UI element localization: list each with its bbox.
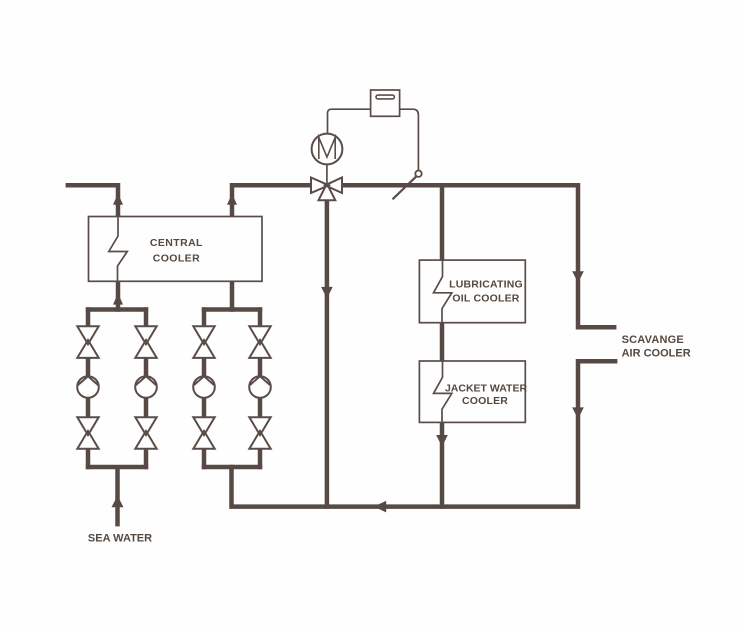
arrow down on bypass — [321, 287, 333, 299]
wire: group2 branch A valve-pump — [202, 358, 207, 377]
wire: group1 branch B upper — [144, 307, 149, 326]
temperature controller box — [371, 90, 400, 116]
wire: group2 branch A upper — [202, 307, 207, 326]
valve actuator stem — [326, 164, 328, 185]
svg-text:AIR COOLER: AIR COOLER — [622, 348, 691, 360]
wire: central cooler right pipe lower — [230, 281, 235, 311]
arrow left on bottom return line — [374, 501, 386, 513]
wire: top main fresh-water line left segment with corner down to cooler — [232, 185, 311, 216]
signal wire: controller to sensor — [400, 109, 419, 170]
arrow down on right riser — [572, 271, 584, 283]
arrow up on cooler right pipe — [227, 193, 237, 204]
wire: pump group 2 bottom header bar — [202, 465, 262, 470]
controller display bar — [376, 95, 394, 99]
svg-text:SEA WATER: SEA WATER — [88, 533, 152, 545]
wire: group2 branch B lower — [258, 449, 263, 469]
wire: group2 branch A pump-valve — [202, 398, 207, 418]
valve V2 (group1 B upper) — [135, 326, 156, 358]
svg-text:OIL COOLER: OIL COOLER — [452, 293, 519, 305]
valve V3 (group2 A upper) — [193, 326, 214, 358]
central cooler heat-exchange zigzag — [109, 217, 128, 282]
svg-text:LUBRICATING: LUBRICATING — [449, 278, 523, 290]
three-way valve body — [311, 178, 342, 201]
wire: group1 branch B valve-pump — [144, 358, 149, 377]
wire: group1 branch A lower — [86, 449, 91, 469]
valve V6 (group1 B lower) — [135, 417, 156, 449]
wire: group1 branch B lower — [144, 449, 149, 469]
central cooler box — [89, 217, 263, 282]
wire: pump group 1 top header bar — [86, 307, 148, 312]
arrow up on overboard pipe — [113, 193, 123, 204]
wire: group2 branch B valve-pump — [258, 358, 263, 377]
motor actuator M circle — [312, 134, 343, 165]
wire: group2 branch B upper — [258, 307, 263, 326]
signal wire: controller to motor — [328, 109, 371, 133]
wire: pump group 2 top header bar — [202, 307, 262, 312]
wire: group2 branch A lower — [202, 449, 207, 469]
lubricating oil cooler box — [419, 260, 525, 323]
letter M — [319, 138, 335, 160]
wire: three-way valve bypass line down to return — [325, 200, 330, 509]
svg-text:JACKET WATER: JACKET WATER — [445, 383, 527, 395]
valve V8 (group2 B lower) — [249, 417, 270, 449]
wire: group1 branch A upper — [86, 307, 91, 326]
jacket water cooler zigzag — [434, 361, 452, 422]
wire: group2 branch B pump-valve — [258, 398, 263, 418]
svg-text:CENTRAL: CENTRAL — [150, 237, 203, 249]
svg-text:COOLER: COOLER — [153, 252, 200, 264]
wire: sea water suction stem — [115, 467, 120, 526]
pump P4 (group2 B) — [249, 376, 271, 398]
wire: top main line right segment, down right side to scavange air cooler inlet stub — [342, 185, 616, 327]
wire: lube oil cooler to jacket water cooler connector — [440, 323, 445, 361]
wire: pump group 1 bottom header bar — [86, 465, 148, 470]
pump P1 (group1 A) — [77, 376, 99, 398]
svg-text:SCAVANGE: SCAVANGE — [622, 334, 684, 346]
wire: lubricating oil cooler feed — [440, 185, 445, 260]
wire: group1 branch B pump-valve — [144, 398, 149, 418]
pump P3 (group2 A) — [193, 376, 215, 398]
wire: overboard discharge line (top-left elbow) — [66, 185, 118, 216]
wire: central cooler left outlet to pump group 1 — [116, 281, 121, 311]
jacket water cooler box — [419, 361, 525, 422]
svg-text:COOLER: COOLER — [462, 395, 508, 407]
wire: scavange air cooler return stub, down and along bottom return line, up to pump group 2 — [232, 361, 618, 506]
arrow down on scavange return riser — [572, 407, 584, 419]
arrow up on sea water inlet — [112, 496, 124, 508]
arrow up into central cooler (sea water) — [113, 293, 123, 305]
valve V5 (group1 A lower) — [77, 417, 98, 449]
pump P2 (group1 B) — [135, 376, 157, 398]
arrow down on jacket water outlet — [436, 435, 448, 447]
wire: jacket water cooler outlet to return line — [440, 422, 445, 508]
temperature sensor circle — [415, 171, 421, 177]
lube oil cooler zigzag — [434, 260, 452, 323]
valve V1 (group1 A upper) — [77, 326, 98, 358]
wire: group1 branch A pump-valve — [86, 398, 91, 418]
valve V7 (group2 A lower) — [193, 417, 214, 449]
valve V4 (group2 B upper) — [249, 326, 270, 358]
wire: group1 branch A valve-pump — [86, 358, 91, 377]
temperature sensor probe diagonal — [393, 176, 417, 199]
